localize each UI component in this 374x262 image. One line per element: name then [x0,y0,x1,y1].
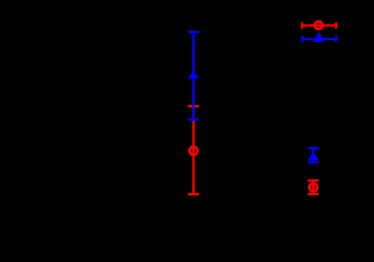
errorbar series 1 (red, center large) [188,106,199,194]
legend blue right tick [335,36,337,42]
red top cap [188,105,199,107]
red small bottom cap [308,193,319,195]
legend blue left tick [301,36,303,42]
errorbar series 2 (blue, center large) [188,32,199,120]
errorbar series 1 (red, right small) [308,181,319,195]
blue small bottom cap [308,161,319,163]
marker red circle small [309,183,317,191]
marker red circle large [190,147,198,155]
wire blue vertical bar [192,32,194,120]
marker legend red circle [315,21,323,29]
blue bottom cap [188,118,199,120]
marker blue triangle large [188,71,199,79]
wire red vertical bar [192,106,194,194]
legend red right tick [335,22,337,28]
legend entry 2 (blue) [301,36,337,42]
wire legend red horizontal line [301,24,337,26]
marker blue triangle small [308,152,319,160]
wire blue small vertical bar [312,148,314,162]
blue top cap [188,31,199,33]
red bottom cap [188,193,199,195]
blue small top cap [308,147,319,149]
wire red small vertical bar [312,181,314,195]
wire legend blue horizontal line [301,38,337,40]
red small top cap [308,179,319,181]
legend red left tick [301,22,303,28]
legend entry 1 (red) [301,21,337,29]
marker legend blue triangle [313,32,324,42]
errorbar series 2 (blue, right small) [308,148,319,162]
